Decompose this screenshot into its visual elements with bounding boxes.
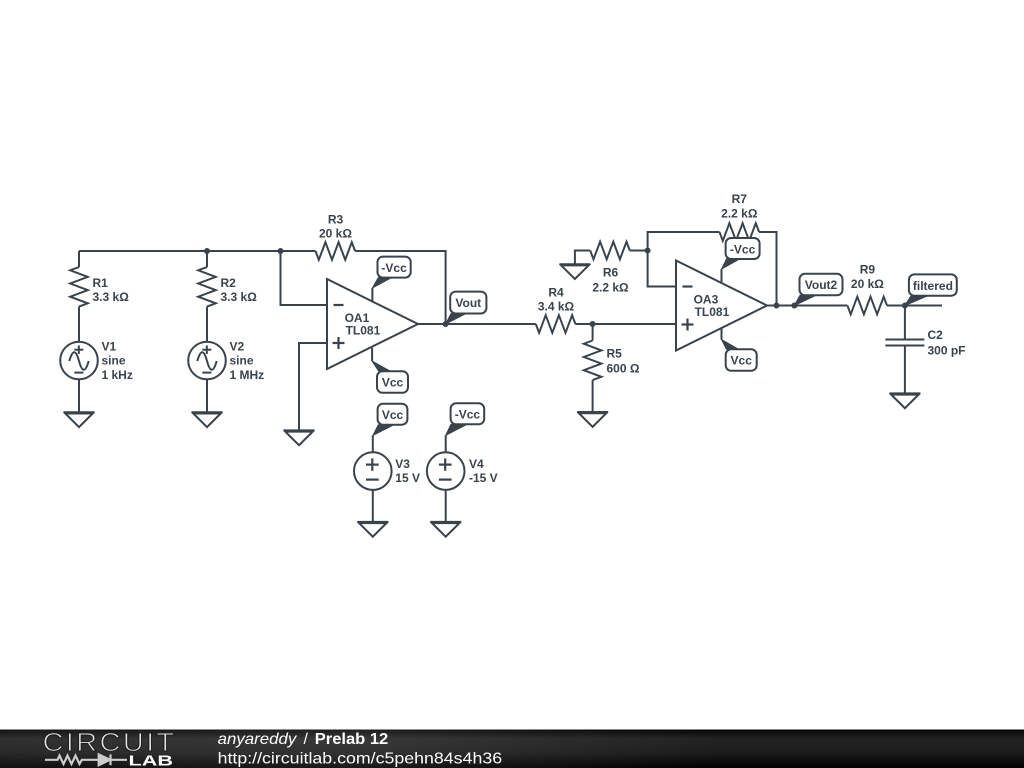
flag Vcc (OA3 V-) [722, 340, 757, 371]
ground [889, 393, 920, 408]
svg-text:V2: V2 [230, 339, 245, 353]
svg-text:V1: V1 [102, 339, 117, 353]
voltage source V2 [188, 342, 226, 380]
label V2 value [230, 339, 265, 382]
flag filtered [905, 274, 957, 305]
wire [78, 379, 80, 412]
wire [281, 251, 328, 305]
svg-text:R9: R9 [860, 262, 876, 276]
label R2 value [221, 276, 258, 304]
svg-text:1 kHz: 1 kHz [102, 368, 133, 382]
node: inverting-input tap [278, 248, 284, 254]
label R1 value [93, 276, 130, 304]
pin OA1 V+ [371, 288, 373, 302]
node: V2/R2 tap on input rail [204, 248, 210, 254]
flag -Vcc (OA1 V+) [372, 257, 410, 288]
label V3 value [395, 457, 420, 485]
svg-text:-15 V: -15 V [469, 471, 498, 485]
svg-text:20 kΩ: 20 kΩ [319, 227, 352, 241]
ground [357, 522, 388, 537]
resistor R7 [720, 223, 760, 241]
svg-text:http://circuitlab.com/c5pehn84: http://circuitlab.com/c5pehn84s4h36 [218, 750, 503, 767]
op-amp OA3 [676, 261, 767, 351]
wire [759, 232, 776, 306]
node: Vout junction [443, 321, 449, 327]
resistor R5 [584, 324, 602, 412]
ground [430, 522, 461, 537]
resistor R1 [70, 251, 88, 342]
label V1 value [102, 339, 133, 382]
svg-text:TL081: TL081 [695, 305, 730, 319]
flag -Vcc (V4) [446, 403, 485, 435]
ground [64, 412, 95, 427]
ground [559, 264, 590, 279]
wire [630, 250, 648, 252]
flag Vcc (OA1 V-) [372, 361, 408, 393]
ground [577, 412, 608, 427]
CircuitLab logo art: resistor + diode squiggle [45, 754, 127, 765]
svg-text:2.2 kΩ: 2.2 kΩ [721, 207, 758, 221]
svg-text:Prelab 12: Prelab 12 [315, 731, 389, 748]
svg-text:3.3 kΩ: 3.3 kΩ [221, 290, 258, 304]
node: filtered junction [902, 303, 908, 309]
wire [648, 251, 676, 287]
wire [445, 490, 447, 522]
svg-text:V4: V4 [469, 457, 484, 471]
svg-text:-Vcc: -Vcc [730, 242, 756, 256]
wire [79, 250, 316, 252]
label R9 value [851, 262, 884, 291]
svg-text:R2: R2 [221, 276, 237, 290]
node: R5 tap [590, 321, 596, 327]
wire [372, 490, 374, 522]
ground [284, 430, 315, 445]
label R3 value [319, 213, 352, 241]
svg-text:600 Ω: 600 Ω [607, 362, 640, 376]
svg-text:Vout: Vout [455, 296, 481, 310]
svg-text:300 pF: 300 pF [928, 343, 966, 357]
resistor R3 [316, 242, 356, 260]
capacitor C2 [885, 306, 924, 394]
voltage source V4 [427, 452, 465, 490]
wire [575, 323, 676, 325]
svg-text:R3: R3 [328, 213, 344, 227]
wire [355, 251, 446, 324]
svg-text:LAB: LAB [129, 753, 174, 768]
voltage source V3 [354, 452, 392, 490]
resistor R4 [536, 315, 576, 333]
label R7 value [721, 192, 758, 221]
label R6 value [592, 265, 629, 294]
wire [648, 232, 720, 251]
wire [206, 379, 208, 412]
svg-text:Vcc: Vcc [382, 376, 404, 390]
svg-text:R5: R5 [607, 347, 623, 361]
svg-text:anyareddy: anyareddy [218, 731, 298, 748]
svg-text:C2: C2 [928, 328, 944, 342]
svg-text:R7: R7 [732, 192, 748, 206]
footer title: user / project [218, 731, 389, 748]
pin OA3 V+ [721, 269, 723, 283]
pin OA3 V- [721, 328, 723, 340]
svg-text:R6: R6 [603, 265, 619, 279]
voltage source V1 [60, 342, 98, 380]
label V4 value [469, 457, 498, 485]
label R5 value [607, 347, 640, 376]
resistor R2 [198, 251, 216, 342]
node: Vout2 tap [791, 303, 797, 309]
wire [372, 435, 374, 452]
svg-text:20 kΩ: 20 kΩ [851, 277, 884, 291]
svg-text:R1: R1 [93, 276, 109, 290]
flag Vout2 [794, 274, 842, 306]
svg-text:V3: V3 [395, 457, 410, 471]
svg-text:Vcc: Vcc [731, 354, 753, 368]
wire [887, 305, 942, 307]
node: OA3 inverting junction [645, 248, 651, 254]
wire [445, 435, 447, 452]
ground [192, 412, 223, 427]
wire [418, 323, 536, 325]
flag Vout [446, 292, 487, 324]
svg-text:3.4 kΩ: 3.4 kΩ [538, 300, 575, 314]
svg-text:sine: sine [230, 354, 254, 368]
op-amp OA1 [327, 279, 418, 369]
flag -Vcc (OA3 V+) [722, 238, 760, 269]
svg-text:-Vcc: -Vcc [381, 261, 407, 275]
svg-text:3.3 kΩ: 3.3 kΩ [93, 290, 130, 304]
svg-text:1 MHz: 1 MHz [230, 368, 265, 382]
footer bar [0, 730, 1024, 768]
flag Vcc (V3) [373, 404, 407, 436]
svg-text:Vout2: Vout2 [805, 278, 838, 292]
label R4 value [538, 286, 575, 314]
label C2 value [928, 328, 966, 357]
svg-text:TL081: TL081 [346, 324, 381, 338]
svg-text:15 V: 15 V [395, 471, 420, 485]
wire [575, 251, 590, 265]
node: OA3 output / R7 junction [774, 303, 780, 309]
svg-text:sine: sine [102, 354, 126, 368]
wire [767, 305, 847, 307]
svg-text:/: / [304, 731, 309, 748]
resistor R6 [590, 242, 630, 260]
svg-text:2.2 kΩ: 2.2 kΩ [592, 280, 629, 294]
svg-text:Vcc: Vcc [382, 408, 404, 422]
svg-text:-Vcc: -Vcc [455, 408, 481, 422]
resistor R9 [847, 297, 887, 315]
wire [299, 343, 327, 430]
svg-text:filtered: filtered [913, 279, 953, 293]
pin OA1 V- [371, 348, 373, 361]
svg-text:R4: R4 [548, 286, 564, 300]
